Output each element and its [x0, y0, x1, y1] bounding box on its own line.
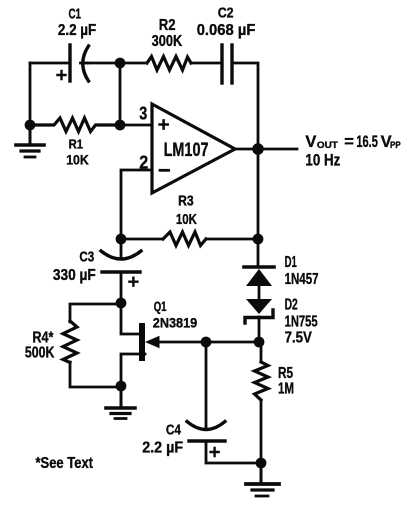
wire node F to R4 top	[70, 304, 121, 322]
wire node I to R5	[260, 342, 263, 362]
svg-text:300K: 300K	[152, 33, 183, 50]
svg-text:OUT: OUT	[317, 140, 338, 151]
ground 2	[106, 386, 135, 419]
wire node D to R3	[121, 238, 163, 241]
resistor R2	[147, 57, 191, 71]
svg-text:10K: 10K	[66, 153, 89, 168]
svg-text:LM107: LM107	[164, 140, 209, 161]
zener diode D2 1N755	[245, 299, 273, 323]
capacitor C4	[187, 422, 225, 457]
wire C1 to node A	[88, 62, 120, 65]
node J junction	[256, 458, 267, 469]
svg-text:1N457: 1N457	[285, 271, 319, 288]
svg-text:7.5V: 7.5V	[285, 329, 313, 346]
svg-text:2N3819: 2N3819	[153, 316, 197, 331]
node H junction	[201, 337, 212, 348]
node E junction	[253, 234, 264, 245]
node VOUT junction	[252, 143, 264, 155]
resistor R1	[30, 118, 120, 132]
wire D1 to D2	[258, 285, 261, 300]
svg-text:PP: PP	[390, 140, 401, 151]
svg-text:10K: 10K	[176, 211, 197, 228]
svg-text:R1: R1	[69, 136, 83, 151]
wire R2 to C2	[191, 62, 221, 65]
svg-text:2.2 µF: 2.2 µF	[142, 439, 183, 456]
svg-text:C4: C4	[166, 421, 182, 438]
svg-text:2.2 µF: 2.2 µF	[58, 22, 96, 39]
svg-text:500K: 500K	[25, 344, 55, 361]
svg-text:*See Text: *See Text	[36, 455, 94, 472]
wire R5 to node J	[260, 400, 263, 463]
wire C4 to node J	[206, 441, 261, 463]
wire node E down to D1	[257, 239, 260, 267]
ground 3	[246, 463, 279, 496]
svg-text:0.068 µF: 0.068 µF	[197, 22, 256, 39]
wire feedback line VOUT to node E	[257, 149, 260, 239]
svg-text:C2: C2	[218, 5, 234, 22]
wire Q1 gate	[158, 341, 259, 344]
node A junction	[115, 58, 126, 69]
node B junction	[25, 120, 36, 131]
svg-text:D1: D1	[285, 254, 297, 271]
op-amp U1 LM107	[152, 104, 235, 193]
svg-text:3: 3	[139, 103, 147, 123]
wire D2 to node I	[258, 317, 261, 342]
capacitor C1	[58, 45, 89, 81]
svg-text:C1: C1	[69, 6, 82, 23]
wire op-amp output	[235, 148, 297, 151]
wire R4 bottom to node G	[70, 362, 121, 387]
wire C2 to feedback line corner	[232, 63, 258, 149]
wire node C to op-amp pin 3	[120, 124, 152, 127]
node G junction	[116, 381, 127, 392]
svg-text:330 µF: 330 µF	[53, 267, 96, 284]
resistor R5	[255, 362, 269, 400]
ground 1	[16, 125, 44, 157]
svg-text:=: =	[344, 133, 354, 151]
resistor R3	[163, 232, 206, 246]
svg-text:16.5: 16.5	[356, 133, 378, 151]
svg-text:R2: R2	[159, 17, 176, 34]
node F junction	[116, 298, 127, 309]
wire op-amp pin 2 down to node D	[121, 170, 152, 239]
capacitor C2	[222, 45, 232, 83]
node I junction	[254, 337, 265, 348]
node D junction	[116, 234, 127, 245]
wire node D down to C3	[120, 239, 123, 257]
svg-text:C3: C3	[79, 248, 94, 265]
wire node A to node C vertical	[119, 63, 122, 125]
svg-text:Q1: Q1	[154, 298, 167, 314]
node C junction	[115, 120, 126, 131]
svg-text:R3: R3	[178, 193, 194, 210]
svg-text:R5: R5	[278, 365, 293, 382]
capacitor C3	[101, 251, 141, 286]
svg-text:10 Hz: 10 Hz	[305, 152, 340, 170]
svg-text:D2: D2	[285, 296, 298, 313]
resistor R4	[63, 321, 77, 363]
wire C3 to node F	[120, 272, 123, 304]
wire node H down to C4	[205, 342, 208, 428]
label VOUT value	[305, 133, 401, 151]
transistor Q1 JFET	[121, 304, 160, 386]
wire node A to R2	[120, 62, 147, 65]
wire C1 left branch vertical	[29, 63, 32, 125]
svg-text:V: V	[305, 133, 316, 151]
diode D1 1N457	[244, 267, 274, 286]
svg-text:1N755: 1N755	[285, 313, 318, 330]
wire top-left horizontal to C1	[30, 62, 69, 65]
svg-text:1M: 1M	[278, 381, 294, 398]
wire R3 to node E	[206, 238, 258, 241]
